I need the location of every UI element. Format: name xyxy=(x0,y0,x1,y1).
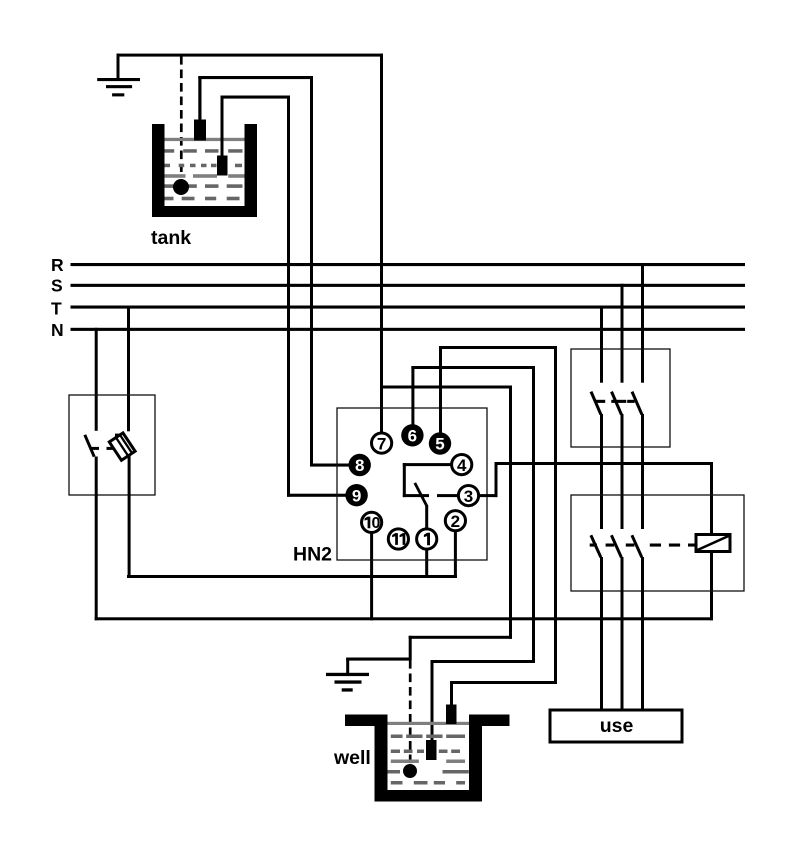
box: switch-fuse enclosure xyxy=(69,395,155,495)
svg-text:9: 9 xyxy=(352,486,361,505)
pin 1 xyxy=(417,529,437,549)
box: use (load) xyxy=(550,710,682,742)
bus line T xyxy=(71,306,746,309)
svg-text:HN2: HN2 xyxy=(293,544,332,566)
bus line S xyxy=(71,284,746,287)
tank float ball xyxy=(173,179,189,195)
tank electrode low (to pin 9) xyxy=(217,96,228,176)
pin 5 xyxy=(429,432,451,454)
tank electrode high (to pin 8) xyxy=(194,76,206,141)
wire: pin 10 drop xyxy=(370,532,373,620)
well water dash pattern xyxy=(388,735,469,785)
wire: fuse pole down to y576 bus xyxy=(128,456,131,578)
ground symbol (near well) xyxy=(326,658,411,692)
pin 9 xyxy=(345,484,367,506)
wire: long bottom horizontal (N side) to coil xyxy=(95,617,713,620)
wire: well common electrode dashed xyxy=(409,660,412,770)
pin 3 xyxy=(458,486,478,506)
HN2 internal contact: moving blade to pin 1 xyxy=(415,483,428,529)
svg-text:N: N xyxy=(51,320,64,340)
wire: pin 3 to coil riser xyxy=(479,462,713,497)
switch pole blades (3-pole disconnect) xyxy=(591,392,642,415)
pin 2 xyxy=(445,511,465,531)
wire: vertical drop x=381 from top wire to HN2 pin 7 xyxy=(380,54,383,434)
svg-text:R: R xyxy=(51,255,64,275)
contactor linkage dashed to coil xyxy=(650,544,697,547)
wire: pin 2 riser xyxy=(454,531,457,578)
wire: 3 poles from contactor down to use box xyxy=(600,557,644,711)
contactor tick marks xyxy=(590,544,635,547)
svg-text:4: 4 xyxy=(457,456,467,475)
wire: pin 5 riser and route to well top electrode xyxy=(439,346,557,705)
ground symbol (top left) xyxy=(97,54,140,97)
wire: top horizontal from ground to pin-7 drop xyxy=(117,54,384,57)
tank water dash pattern xyxy=(165,149,243,200)
svg-text:0: 0 xyxy=(371,515,380,532)
pin 6 xyxy=(401,424,423,446)
svg-text:5: 5 xyxy=(435,435,444,454)
svg-text:2: 2 xyxy=(451,512,460,531)
wire: T drop to breaker xyxy=(600,306,603,383)
wire: pin 7 branch to well common xyxy=(380,386,512,661)
wire: pin 6 riser and route to well mid electrode xyxy=(411,366,535,740)
box: contactor enclosure xyxy=(571,495,744,591)
fuse top tick xyxy=(115,434,122,437)
bus line N xyxy=(71,328,746,331)
pin 10 xyxy=(362,512,382,532)
bus line R xyxy=(71,263,746,266)
switch linkage dashes xyxy=(595,400,635,403)
wire: pin 1 drop xyxy=(425,550,428,578)
fuse F1 (rotated fuse body) xyxy=(109,433,135,460)
svg-text:6: 6 xyxy=(408,427,417,446)
well electrode top (from pin 5) xyxy=(446,705,457,725)
svg-text:well: well xyxy=(333,747,371,769)
pin 8 xyxy=(349,454,371,476)
contactor coil K1 xyxy=(696,535,730,552)
wire: tank electrode low to pin 9 xyxy=(221,96,348,497)
wire: switch pole down to bottom bus xyxy=(95,457,98,621)
HN2 internal contact: pin3 fixed contact xyxy=(437,494,458,497)
pin 7 xyxy=(372,433,392,453)
svg-text:8: 8 xyxy=(355,456,364,475)
pin 4 xyxy=(452,455,472,475)
pin 11 xyxy=(388,529,408,549)
svg-text:3: 3 xyxy=(464,487,473,506)
HN2 internal contact: pin4 arm xyxy=(403,463,451,497)
wire: N drop to switch pole xyxy=(95,328,98,431)
svg-text:tank: tank xyxy=(151,227,191,249)
contactor pole blades xyxy=(591,535,642,557)
wire: S drop to breaker xyxy=(621,284,624,383)
svg-text:T: T xyxy=(51,298,62,318)
svg-text:7: 7 xyxy=(377,434,386,453)
box: 3-pole switch enclosure xyxy=(571,349,670,447)
well container xyxy=(345,715,510,802)
wire: horizontal y576 from fuse to pin 2 xyxy=(127,575,457,578)
wire: tank common electrode (dashed) from top wire into tank xyxy=(180,56,183,172)
switch blade (left pole) xyxy=(85,435,94,457)
wire: R drop to breaker xyxy=(641,263,644,383)
svg-text:use: use xyxy=(600,715,634,737)
wire: coil riser x=711.5 xyxy=(710,462,713,620)
tank water surface line xyxy=(165,138,245,141)
wire: 3 poles between switch and contactor xyxy=(600,414,644,529)
switch tick marks xyxy=(90,447,100,450)
wire: T drop to fuse pole xyxy=(127,306,130,432)
box: HN2 relay socket xyxy=(337,408,487,560)
svg-text:S: S xyxy=(51,276,63,296)
tank container xyxy=(152,124,257,217)
well float ball xyxy=(403,764,417,778)
wire: tank electrode high to pin 8 xyxy=(198,76,350,467)
well electrode mid (from pin 6) xyxy=(426,740,437,760)
well water surface line xyxy=(388,722,470,725)
